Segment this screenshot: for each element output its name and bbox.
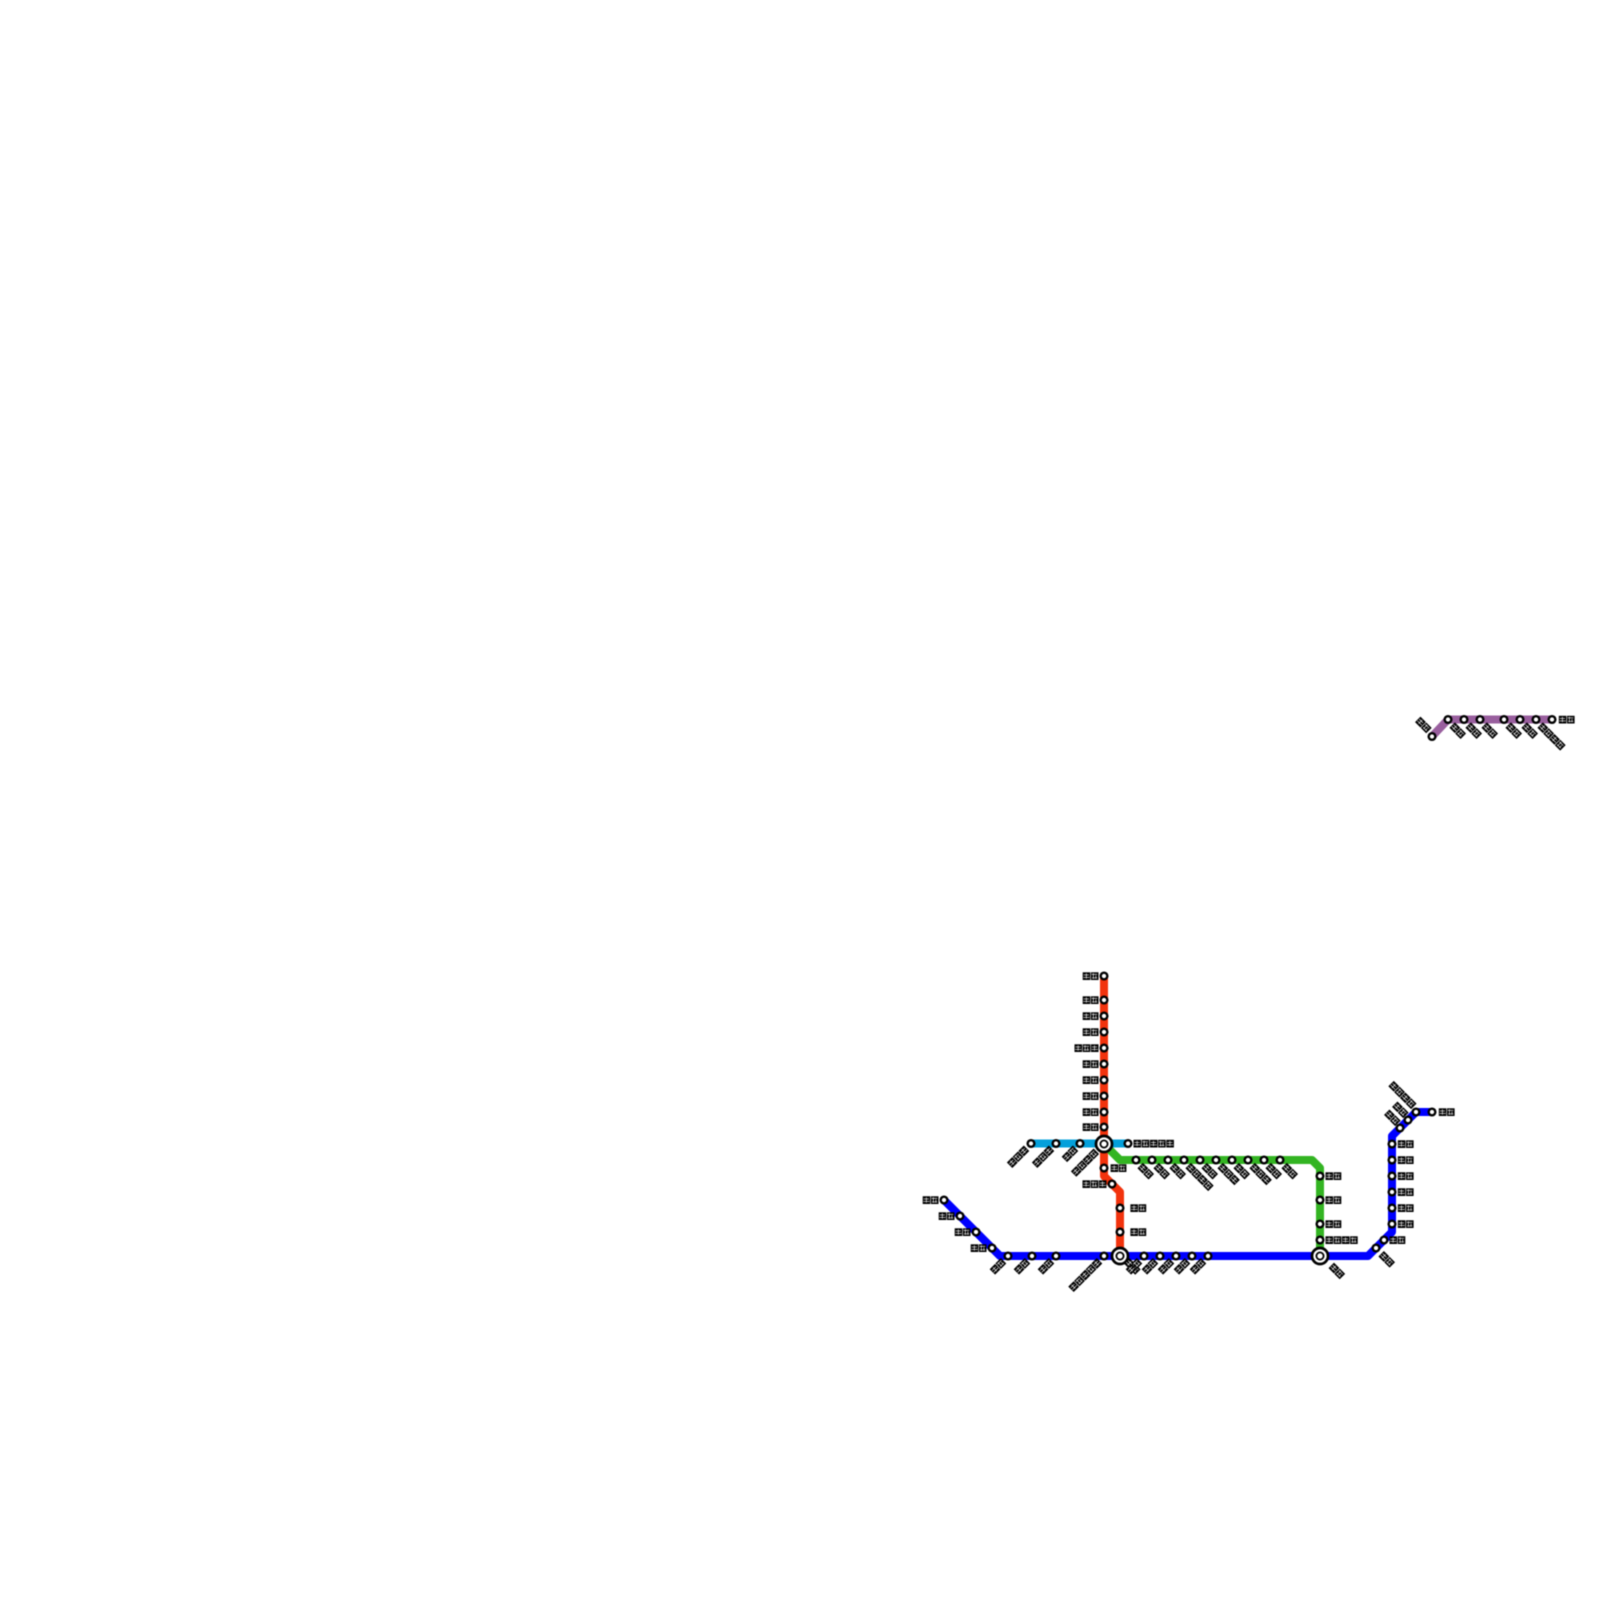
label 德清 (1449, 722, 1466, 739)
node station 双水 (989, 1245, 996, 1252)
label 惠州南站 (1185, 1163, 1213, 1191)
label 台北 (1392, 1101, 1409, 1118)
label 江门 (1014, 1258, 1031, 1275)
node station 江门 (1029, 1253, 1036, 1260)
label 莆田 (1326, 1172, 1342, 1180)
label 泉州 (1326, 1196, 1342, 1204)
label 深圳 (1130, 1204, 1146, 1212)
label 基隆 (1439, 1108, 1455, 1116)
wire cyan line 三水镇-广州大学城 (1031, 1140, 1128, 1148)
label 英红 (1083, 1012, 1099, 1020)
label 源潭 (1083, 1060, 1099, 1068)
label 惠东 (1142, 1258, 1159, 1275)
node interchange 前海 (1112, 1248, 1128, 1264)
label 双水 (971, 1244, 987, 1252)
label 三水镇 (1007, 1146, 1029, 1168)
label 惠阳 (1169, 1163, 1186, 1180)
node interchange 广州南站 (1096, 1136, 1112, 1152)
label 前海 (1124, 1258, 1141, 1275)
label 新竹 (1398, 1140, 1414, 1148)
label 上海虹桥 (1537, 722, 1565, 750)
node station 白云 (1101, 1109, 1108, 1116)
label 虎门 (1111, 1164, 1127, 1172)
label 高雄 (1378, 1251, 1395, 1268)
label 厦门 (1326, 1220, 1342, 1228)
node station 狮山镇 (1053, 1140, 1060, 1147)
node station 英红 (1101, 1013, 1108, 1020)
node station 台山 (957, 1213, 964, 1220)
node station 德清 (1445, 716, 1452, 723)
node station 增城 (1133, 1157, 1140, 1164)
node station 人和 (1101, 1093, 1108, 1100)
node station 上海 (1549, 716, 1556, 723)
label 英德 (1083, 1028, 1099, 1036)
label 增城 (1137, 1163, 1154, 1180)
node station 惠阳 (1165, 1157, 1172, 1164)
node station 新会 (1005, 1253, 1012, 1260)
label 汕尾 (1158, 1258, 1175, 1275)
label 连江口 (1075, 1044, 1099, 1052)
label 潮汕站 (1249, 1163, 1271, 1185)
node station 厦门 (1317, 1221, 1324, 1228)
label 开平 (923, 1196, 939, 1204)
node station 基隆 (1429, 1109, 1436, 1116)
label 台中 (1398, 1172, 1414, 1180)
label 广州 (1083, 1123, 1099, 1131)
node station 汕头 (1205, 1253, 1212, 1260)
label 桐乡 (1465, 722, 1482, 739)
node station 福田 (1117, 1229, 1124, 1236)
label 饶平 (1265, 1163, 1282, 1180)
label 海丰 (1201, 1163, 1218, 1180)
node station 源潭 (1101, 1061, 1108, 1068)
node station 佛山 (1077, 1140, 1084, 1147)
node station 诏安 (1277, 1157, 1284, 1164)
label 韶关 (1083, 996, 1099, 1004)
node station 松江 (1517, 716, 1524, 723)
node station 韶关 (1101, 997, 1108, 1004)
label 嘉义 (1398, 1204, 1414, 1212)
label 陆丰东 (1217, 1163, 1239, 1185)
node station 潮汕站 (1245, 1157, 1252, 1164)
label 潮阳 (1233, 1163, 1250, 1180)
label 汕头 (1190, 1258, 1207, 1275)
node station 高雄 (1373, 1245, 1380, 1252)
node station 深圳 (1117, 1205, 1124, 1212)
wire red line 仁化-香港 (1104, 976, 1120, 1256)
node station 饶平 (1261, 1157, 1268, 1164)
label 厦门半岛 (1326, 1236, 1358, 1244)
node station 南港车站 (1413, 1109, 1420, 1116)
label 诏安 (1281, 1163, 1298, 1180)
node station 海丰 (1197, 1157, 1204, 1164)
label 仁化 (1083, 972, 1099, 980)
label 嘉善 (1505, 722, 1522, 739)
node station 台北 (1405, 1117, 1412, 1124)
label 揭阳 (1174, 1258, 1191, 1275)
label 中山 (1038, 1258, 1055, 1275)
label 台南 (1390, 1236, 1406, 1244)
node station 新竹 (1389, 1141, 1396, 1148)
node station 汕尾 (1173, 1253, 1180, 1260)
label 上海 (1559, 716, 1575, 724)
node station 光明城 (1109, 1181, 1116, 1188)
label 松江 (1521, 722, 1538, 739)
node station 广州大学城 (1125, 1140, 1132, 1147)
label 狮山镇 (1032, 1146, 1054, 1168)
label 彰化 (1398, 1188, 1414, 1196)
label 南港车站 (1388, 1081, 1416, 1109)
label 人和 (1083, 1092, 1099, 1100)
wire green line 广州南-金门 (1104, 1144, 1320, 1256)
node station 嘉兴 (1477, 716, 1484, 723)
node station 连江口 (1101, 1045, 1108, 1052)
label 杭州 (1415, 717, 1432, 734)
node station 惠州南站 (1181, 1157, 1188, 1164)
node station 仁化 (1101, 973, 1108, 980)
label 白云 (1083, 1108, 1099, 1116)
wire purple line 杭州-上海 (1432, 720, 1552, 737)
node station 上海虹桥 (1533, 716, 1540, 723)
label 光明城 (1083, 1180, 1107, 1188)
label 佛山 (1062, 1146, 1079, 1163)
label 广州南站 (1071, 1149, 1099, 1177)
label 仙村 (1153, 1163, 1170, 1180)
label 新营 (1398, 1220, 1414, 1228)
node station 新营 (1389, 1221, 1396, 1228)
label 新会 (990, 1258, 1007, 1275)
node station 广州 (1101, 1124, 1108, 1131)
node station 杭州 (1429, 733, 1436, 740)
node station 苗栗 (1389, 1157, 1396, 1164)
node station 厦门半岛 (1317, 1237, 1324, 1244)
node station 泉州 (1317, 1197, 1324, 1204)
node station 香港西九龙 (1101, 1253, 1108, 1260)
node station 中山 (1053, 1253, 1060, 1260)
node station 潮阳 (1229, 1157, 1236, 1164)
node station 陆丰东 (1213, 1157, 1220, 1164)
node station 嘉善 (1501, 716, 1508, 723)
node station 三合 (973, 1229, 980, 1236)
label 福田 (1130, 1228, 1146, 1236)
label 三合 (955, 1228, 971, 1236)
label 嘉兴 (1481, 722, 1498, 739)
label 盐田 (1126, 1258, 1143, 1275)
label 银盏 (1083, 1076, 1099, 1084)
node station 台中 (1389, 1173, 1396, 1180)
label 桃园 (1384, 1109, 1401, 1126)
label 香港西九龙 (1068, 1258, 1102, 1292)
label 台山 (939, 1212, 955, 1220)
node station 三水镇 (1028, 1140, 1035, 1147)
node station 虎门 (1101, 1165, 1108, 1172)
label 金门 (1329, 1263, 1346, 1280)
node station 仙村 (1149, 1157, 1156, 1164)
node station 英德 (1101, 1029, 1108, 1036)
node station 银盏 (1101, 1077, 1108, 1084)
node station 莆田 (1317, 1173, 1324, 1180)
node station 台南 (1381, 1237, 1388, 1244)
label 广州大学城 (1134, 1140, 1174, 1148)
node interchange 金门 (1312, 1248, 1328, 1264)
node station 揭阳 (1189, 1253, 1196, 1260)
node station 彰化 (1389, 1189, 1396, 1196)
node station 嘉义 (1389, 1205, 1396, 1212)
node station 桃园 (1397, 1125, 1404, 1132)
node station 惠东 (1157, 1253, 1164, 1260)
wire blue line 开平-基隆 (944, 1112, 1432, 1256)
label 苗栗 (1398, 1156, 1414, 1164)
node station 盐田 (1141, 1253, 1148, 1260)
node station 开平 (941, 1197, 948, 1204)
node station 桐乡 (1461, 716, 1468, 723)
